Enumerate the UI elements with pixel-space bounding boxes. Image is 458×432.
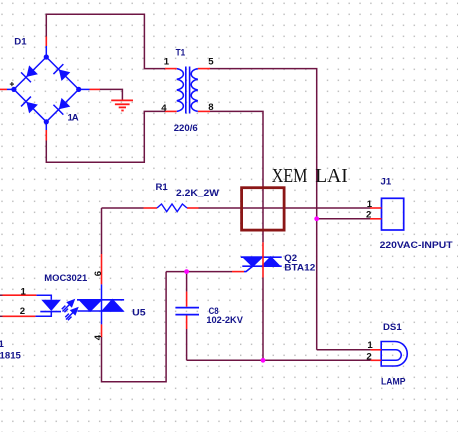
- DS1 pin 1: [371, 349, 382, 351]
- diode D1 bottom-right: [53, 97, 70, 114]
- svg-text:Q1: Q1: [0, 339, 4, 350]
- junction dot bottom run: [261, 358, 266, 363]
- capacitor C8: [175, 308, 199, 315]
- U5 LED cathode bar: [40, 311, 61, 313]
- T1 core: [186, 67, 190, 114]
- T1 pin 1: [165, 68, 177, 70]
- T1 pin 5: [198, 68, 210, 70]
- wire U5 pin4 loop up to gate row: [102, 272, 167, 382]
- svg-text:6: 6: [93, 271, 104, 276]
- DS1 pin 2: [371, 359, 382, 361]
- J1 pin 2: [370, 218, 382, 220]
- resistor R1: [144, 207, 199, 209]
- U5 center vertical: [101, 284, 103, 324]
- svg-text:1: 1: [367, 199, 373, 210]
- svg-text:DS1: DS1: [383, 322, 402, 333]
- svg-text:T1: T1: [176, 47, 186, 58]
- svg-text:1: 1: [21, 287, 27, 298]
- wire Q2 gate row to left corner: [166, 271, 232, 273]
- bridge blue pin stubs: [7, 46, 90, 130]
- wire J1 pin2 horizontal: [317, 218, 371, 220]
- svg-text:102-2KV: 102-2KV: [206, 315, 243, 326]
- svg-text:2.2K_2W: 2.2K_2W: [176, 188, 220, 199]
- svg-text:4: 4: [161, 103, 167, 114]
- wire U5 pin1 stub at left edge: [0, 294, 3, 296]
- T1 primary winding: [177, 69, 184, 112]
- T1 secondary winding: [191, 69, 198, 112]
- wire top loop: bridge top to T1 pin1: [46, 14, 165, 68]
- wire to DS1 pin1: [317, 349, 371, 351]
- XEM LAI highlight box: [242, 188, 285, 230]
- wire U5 pin2 stub at left edge: [0, 315, 3, 317]
- Q2 gate red pin: [232, 271, 244, 273]
- U5 opto-triac rails: [77, 300, 124, 311]
- svg-text:LAI: LAI: [315, 166, 347, 187]
- C8 red pins: [186, 292, 188, 329]
- bridge red pins: [0, 37, 100, 141]
- svg-text:4: 4: [93, 334, 104, 340]
- svg-text:220/6: 220/6: [174, 123, 198, 134]
- wire bottom loop: bridge bottom to T1 pin4: [46, 111, 165, 162]
- U5 pin 6 red: [101, 254, 103, 284]
- wire bottom run to DS1 pin2: [187, 359, 371, 361]
- svg-text:MOC3021: MOC3021: [44, 273, 88, 284]
- wire main middle row R1 to J1 pin1: [102, 207, 144, 209]
- wire left vertical to U5 pin6: [101, 208, 103, 254]
- diode D1 bottom-left: [21, 97, 38, 114]
- svg-text:2: 2: [20, 306, 25, 317]
- U5 pin 4 red: [101, 324, 103, 337]
- DS1 filament: [381, 350, 401, 361]
- U5 pin1 internal wiring: [36, 295, 51, 300]
- svg-text:BTA12: BTA12: [284, 262, 315, 273]
- svg-text:C1815: C1815: [0, 350, 22, 361]
- node dots of bridge: [11, 54, 81, 124]
- svg-text:R1: R1: [156, 182, 169, 193]
- svg-text:D1: D1: [14, 37, 27, 48]
- U5 LED: [41, 300, 61, 311]
- wire C8 branch vertical: [186, 272, 188, 292]
- svg-text:8: 8: [208, 102, 214, 113]
- connector J1: [382, 198, 404, 230]
- svg-text:1: 1: [367, 340, 373, 351]
- svg-text:J1: J1: [381, 176, 392, 187]
- svg-text:1A: 1A: [68, 112, 79, 123]
- diode D1 top-left: [21, 65, 38, 82]
- svg-text:5: 5: [208, 57, 214, 68]
- wire T1 pin5 to J1 pin2 net (vertical x=316.7): [210, 69, 317, 350]
- transformer T1: [165, 69, 210, 112]
- junction dot C8 gate net: [184, 269, 189, 274]
- junction dot J1 pin2 net: [314, 216, 319, 221]
- U5 pin2 internal wiring: [35, 312, 51, 317]
- diode D1 top-right: [53, 64, 70, 81]
- svg-text:U5: U5: [132, 308, 146, 319]
- lamp DS1: [381, 342, 407, 367]
- Q2 MT2/MT1 red pin vertical: [262, 242, 264, 277]
- U5 pin 2 red: [3, 315, 36, 317]
- wire T1 pin8 down through XEM box to Q2: [210, 111, 264, 242]
- T1 pin 4: [165, 110, 177, 112]
- plus sign polarity mark: [10, 82, 14, 86]
- triac Q2: [241, 257, 282, 271]
- U5 pin 1 red: [3, 294, 37, 296]
- svg-text:XEM: XEM: [272, 166, 308, 187]
- wire Q2 bottom to junction at bottom run: [262, 278, 264, 361]
- ground: [111, 100, 133, 110]
- svg-text:220VAC-INPUT: 220VAC-INPUT: [380, 240, 453, 251]
- svg-text:1: 1: [164, 56, 170, 67]
- svg-text:2: 2: [366, 351, 371, 362]
- svg-text:LAMP: LAMP: [381, 377, 406, 388]
- bridge rectifier D1: [14, 57, 79, 122]
- wire bridge right to ground: [100, 89, 123, 100]
- T1 pin 8: [198, 110, 210, 112]
- U5 photo arrows: [62, 300, 78, 320]
- J1 pin 1: [370, 207, 382, 209]
- svg-text:2: 2: [366, 210, 371, 221]
